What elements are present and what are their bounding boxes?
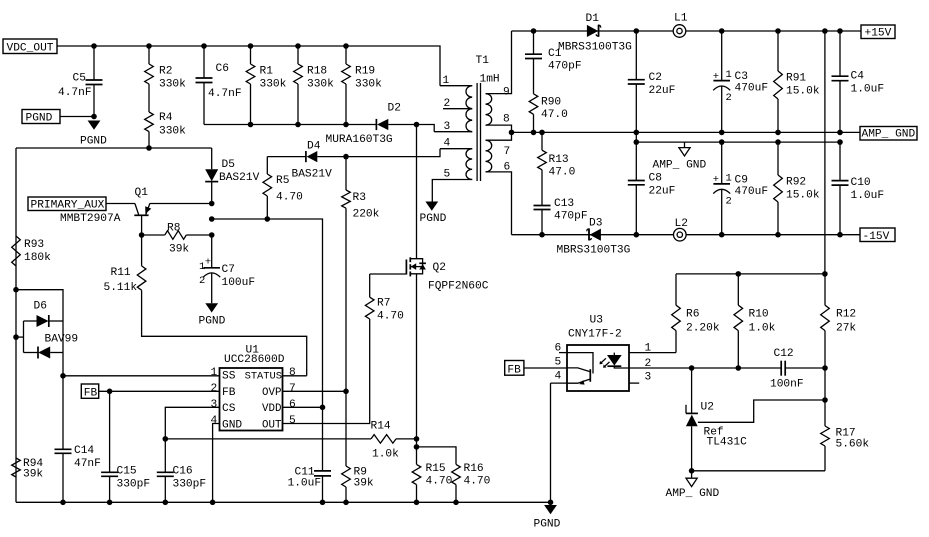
wire Q2 source to R15 <box>416 274 418 465</box>
resistor R10 <box>737 274 739 305</box>
svg-text:1: 1 <box>211 367 218 379</box>
junction ground rail / U1 GND <box>210 500 216 506</box>
junction +rail / R91 <box>775 28 781 34</box>
svg-text:MBRS3100T3G: MBRS3100T3G <box>558 42 632 54</box>
svg-text:15.0k: 15.0k <box>786 86 820 98</box>
svg-text:220k: 220k <box>353 209 380 221</box>
svg-text:2: 2 <box>199 275 205 287</box>
svg-text:4: 4 <box>211 415 218 427</box>
junction ground rail / C11 <box>320 500 326 506</box>
svg-text:D4: D4 <box>307 140 321 152</box>
svg-text:+: + <box>713 174 719 186</box>
svg-text:1: 1 <box>726 69 732 81</box>
svg-text:R6: R6 <box>686 309 699 321</box>
junction centre tap / mid rail <box>509 130 515 136</box>
junction +rail / C2 <box>634 28 640 34</box>
svg-text:R18: R18 <box>307 66 327 78</box>
svg-text:27k: 27k <box>836 323 856 335</box>
junction VDC rail / R18 <box>295 43 301 49</box>
resistor R2 <box>148 46 150 64</box>
resistor R11 <box>141 235 143 266</box>
svg-text:L1: L1 <box>674 13 688 25</box>
svg-text:Q1: Q1 <box>135 187 149 199</box>
wire T1 pins 8-7 centre tap <box>486 125 512 140</box>
svg-text:4.70: 4.70 <box>464 476 491 488</box>
svg-text:C4: C4 <box>851 71 865 83</box>
junction mid rail / C4 <box>837 130 843 136</box>
svg-text:FB: FB <box>222 387 236 399</box>
wire FB to U3 pin5 <box>524 367 567 369</box>
capacitor C8 <box>635 132 637 180</box>
junction -rail / C13 <box>539 232 545 238</box>
svg-text:+15V: +15V <box>865 28 892 40</box>
svg-text:8: 8 <box>289 367 296 379</box>
svg-text:FQPF2N60C: FQPF2N60C <box>428 281 489 293</box>
transformer T1 <box>466 86 472 132</box>
svg-text:SS: SS <box>222 371 236 383</box>
junction ground rail / C14 <box>60 500 66 506</box>
svg-text:PGND: PGND <box>26 113 53 125</box>
net label VDC_OUT <box>3 39 57 54</box>
svg-text:OVP: OVP <box>262 387 281 399</box>
wire T1 pin2 stub <box>443 108 472 110</box>
wire gate <box>370 273 407 275</box>
svg-text:D6: D6 <box>34 301 47 313</box>
junction C5 / PGND <box>91 114 97 120</box>
svg-text:2.20k: 2.20k <box>686 323 720 335</box>
svg-text:C8: C8 <box>649 173 662 185</box>
svg-text:U3: U3 <box>590 315 603 327</box>
junction -rail / C10 <box>837 232 843 238</box>
wire U3 pin4 stub <box>551 382 568 384</box>
junction mid rail / C3 <box>719 130 725 136</box>
junction U2 anode / AMP_GND <box>689 468 695 474</box>
capacitor C2 <box>635 31 637 80</box>
ground PGND main rail <box>544 505 557 514</box>
svg-text:100nF: 100nF <box>770 379 804 391</box>
junction mid rail / C2 <box>634 130 640 136</box>
svg-text:470pF: 470pF <box>554 211 588 223</box>
svg-text:3: 3 <box>645 372 652 384</box>
svg-text:R19: R19 <box>355 66 375 78</box>
junction emitter / D5 column <box>209 201 215 207</box>
resistor R1 <box>250 46 252 64</box>
ground AMP_GND mid symbol <box>684 142 686 148</box>
junction lower rail / C9 <box>719 139 725 145</box>
svg-text:MMBT2907A: MMBT2907A <box>60 213 121 225</box>
svg-text:4.7nF: 4.7nF <box>58 87 92 99</box>
svg-text:BAS21V: BAS21V <box>219 172 260 184</box>
junction D4 wire / R3 <box>343 154 349 160</box>
svg-text:470pF: 470pF <box>548 61 582 73</box>
svg-text:R16: R16 <box>464 463 484 475</box>
svg-text:R14: R14 <box>371 421 391 433</box>
junction VDC rail / C6 <box>201 43 207 49</box>
junction source / R16 branch <box>414 444 420 450</box>
junction VDC rail / R2 <box>146 43 152 49</box>
svg-text:47nF: 47nF <box>74 458 101 470</box>
svg-text:L2: L2 <box>675 218 688 230</box>
optocoupler U3 CNY17F-2 <box>567 345 629 391</box>
resistor R15 <box>412 464 421 484</box>
junction VDD / C11 <box>320 405 326 411</box>
capacitor C4 <box>839 31 841 76</box>
svg-text:1.0uF: 1.0uF <box>288 478 322 490</box>
svg-text:FB: FB <box>84 388 98 400</box>
wire VDD pin6 <box>283 406 323 408</box>
wire T1 pin4 stub <box>440 148 472 150</box>
svg-text:R93: R93 <box>24 239 44 251</box>
wire T1 pin5 stub <box>432 180 472 202</box>
svg-text:39k: 39k <box>169 243 189 255</box>
svg-text:39k: 39k <box>354 478 374 490</box>
svg-text:U2: U2 <box>701 402 714 414</box>
transistor Q2 FQPF2N60C <box>405 260 407 275</box>
junction D6 column / SS wire <box>60 373 66 379</box>
junction -rail / C8 <box>634 232 640 238</box>
svg-text:6: 6 <box>289 399 296 411</box>
junction VDD feed <box>209 216 215 222</box>
wire R4 bottom rail <box>16 147 212 149</box>
junction lower rail / C10 <box>837 139 843 145</box>
svg-text:R8: R8 <box>167 223 180 235</box>
svg-text:2: 2 <box>211 383 218 395</box>
net label -15V <box>860 228 895 242</box>
wire OUT pin5 to R7 <box>283 319 370 424</box>
resistor R17 <box>824 368 826 426</box>
capacitor C11 <box>322 407 324 471</box>
junction R1 bottom <box>248 122 254 128</box>
junction +rail / C4 <box>837 28 843 34</box>
wire D4 anode to T1 pin4 <box>317 149 440 157</box>
svg-text:R1: R1 <box>260 66 274 78</box>
wire U2 anode / R17 bottom <box>692 470 825 472</box>
net label AMP_GND <box>860 127 917 141</box>
svg-text:PRIMARY_AUX: PRIMARY_AUX <box>31 200 105 212</box>
resistor R90 <box>529 94 538 115</box>
svg-text:47.0: 47.0 <box>541 109 568 121</box>
svg-text:5: 5 <box>444 169 451 181</box>
svg-text:470uF: 470uF <box>735 83 769 95</box>
junction FB / C15 <box>107 389 113 395</box>
wire U3 pin1 to R6 <box>629 352 676 354</box>
junction +rail / C1 <box>531 28 537 34</box>
svg-text:C13: C13 <box>554 198 574 210</box>
junction mid rail / R91 <box>775 130 781 136</box>
svg-text:R15: R15 <box>426 463 446 475</box>
svg-text:15.0k: 15.0k <box>786 190 820 202</box>
junction R8 / C7 <box>209 232 215 238</box>
capacitor C10 <box>839 142 841 181</box>
net label FB (right) <box>505 361 524 376</box>
wire R11 to STATUS pin8 <box>142 290 307 376</box>
wire FB pin2 <box>99 390 220 392</box>
diode U2 TL431C <box>691 368 693 413</box>
wire OVP pin7 <box>283 390 347 392</box>
diode D2 <box>377 119 388 130</box>
wire U3 pin2 to C12 <box>629 367 781 369</box>
junction ground rail / R9 <box>343 500 349 506</box>
svg-text:MURA160T3G: MURA160T3G <box>326 134 393 146</box>
junction ground rail / R16 <box>453 500 459 506</box>
svg-text:2: 2 <box>726 92 732 104</box>
inductor L1 <box>673 25 686 38</box>
resistor R16 <box>417 447 457 465</box>
svg-text:5.11k: 5.11k <box>104 282 138 294</box>
junction lower rail / C8 <box>634 139 640 145</box>
wire U3 pin3 stub <box>629 382 639 384</box>
svg-text:T1: T1 <box>476 55 490 67</box>
resistor R6 <box>675 274 677 305</box>
svg-text:TL431C: TL431C <box>707 437 748 449</box>
svg-text:Q2: Q2 <box>433 262 446 274</box>
svg-text:47.0: 47.0 <box>549 167 576 179</box>
svg-text:4.7nF: 4.7nF <box>208 88 242 100</box>
wire -15V rail <box>512 234 861 236</box>
capacitor C13 <box>534 205 551 207</box>
wire aux supply to VDD <box>212 219 323 407</box>
svg-text:330k: 330k <box>159 79 186 91</box>
svg-text:PGND: PGND <box>80 136 107 148</box>
svg-text:4.70: 4.70 <box>276 192 303 204</box>
junction OVP / R3-R9 <box>343 389 349 395</box>
wire T1 pin1 stub <box>440 85 472 87</box>
svg-text:2: 2 <box>726 195 732 207</box>
wire snubber to D2 <box>204 124 377 126</box>
svg-text:1.0uF: 1.0uF <box>851 190 885 202</box>
junction ground rail / C16 <box>163 500 169 506</box>
svg-text:1: 1 <box>443 75 450 87</box>
ground PGND under C5 <box>88 121 101 130</box>
svg-text:3: 3 <box>211 399 218 411</box>
svg-text:470uF: 470uF <box>735 186 769 198</box>
junction ground rail / C15 <box>107 500 113 506</box>
wire T1 pin6 to -rail <box>486 172 512 235</box>
svg-text:R91: R91 <box>786 73 806 85</box>
op-amp U1 UCC28600D <box>220 368 283 431</box>
net label FB (left) <box>81 384 98 398</box>
svg-text:AMP_ GND: AMP_ GND <box>862 129 916 141</box>
wire U2 ref <box>698 400 825 422</box>
svg-text:PGND: PGND <box>199 316 226 328</box>
svg-text:MBRS3100T3G: MBRS3100T3G <box>557 245 631 257</box>
svg-text:PGND: PGND <box>534 519 561 531</box>
svg-text:C14: C14 <box>74 445 94 457</box>
ground AMP_GND bottom symbol <box>691 471 693 478</box>
resistor R94 <box>12 458 21 477</box>
net label PRIMARY_AUX <box>28 197 106 211</box>
capacitor C9 (electrolytic) <box>721 142 723 184</box>
svg-text:7: 7 <box>504 146 511 158</box>
junction R19 bottom <box>343 122 349 128</box>
svg-text:8: 8 <box>503 114 510 126</box>
capacitor C7 (electrolytic) <box>211 235 213 267</box>
capacitor C6 <box>203 46 205 78</box>
ground AMP_GND arrow (mid) <box>679 148 690 156</box>
svg-text:VDC_OUT: VDC_OUT <box>7 43 54 55</box>
wire T1 pin9 to +rail <box>486 31 512 94</box>
svg-text:PGND: PGND <box>420 213 447 225</box>
svg-text:9: 9 <box>503 87 510 99</box>
svg-text:C3: C3 <box>735 71 748 83</box>
junction source / R14 <box>414 436 420 442</box>
net label +15V <box>861 25 895 39</box>
svg-text:R4: R4 <box>159 112 173 124</box>
wire VDC_OUT rail <box>57 46 440 86</box>
resistor R14 <box>165 438 371 440</box>
resistor R4 <box>145 112 154 132</box>
junction left rail / D6 mid <box>13 334 19 340</box>
svg-text:3: 3 <box>444 121 451 133</box>
svg-text:7: 7 <box>289 383 296 395</box>
junction Q1 collector / R8 <box>139 232 145 238</box>
wire SS pin1 <box>63 375 220 377</box>
svg-text:1mH: 1mH <box>480 74 500 86</box>
resistor R19 <box>345 46 347 64</box>
svg-text:R7: R7 <box>377 298 390 310</box>
wire CS pin3 <box>165 407 219 439</box>
junction lower rail / R92 <box>775 139 781 145</box>
junction ground rail / R15 <box>414 500 420 506</box>
junction rail / R10 <box>736 271 742 277</box>
svg-text:330pF: 330pF <box>117 479 151 491</box>
svg-text:C9: C9 <box>735 174 748 186</box>
svg-text:UCC28600D: UCC28600D <box>224 354 285 366</box>
svg-text:330k: 330k <box>307 79 334 91</box>
svg-text:R3: R3 <box>353 192 366 204</box>
transistor Q1 MMBT2907A <box>135 204 139 215</box>
capacitor C14 <box>55 448 72 450</box>
svg-text:-15V: -15V <box>863 231 890 243</box>
svg-text:GND: GND <box>222 419 242 431</box>
svg-text:BAV99: BAV99 <box>45 334 79 346</box>
capacitor C15 <box>109 391 111 472</box>
svg-text:22uF: 22uF <box>649 186 676 198</box>
junction +rail / feed <box>822 28 828 34</box>
junction mid rail / R90 <box>531 130 537 136</box>
resistor R12 <box>824 274 826 305</box>
svg-text:4.70: 4.70 <box>426 476 453 488</box>
svg-text:AMP_ GND: AMP_ GND <box>666 488 720 500</box>
svg-text:R90: R90 <box>541 97 561 109</box>
svg-text:330pF: 330pF <box>173 479 207 491</box>
diode D6 BAV99 (dual) <box>16 290 63 450</box>
wire GND pin4 <box>213 424 220 503</box>
resistor R7 <box>365 297 374 319</box>
resistor R3 <box>345 157 347 190</box>
svg-text:C6: C6 <box>216 63 229 75</box>
wire left rail <box>15 148 17 502</box>
svg-text:R5: R5 <box>276 175 289 187</box>
resistor R8 <box>142 234 165 236</box>
svg-text:R11: R11 <box>111 267 131 279</box>
capacitor C5 <box>93 46 95 80</box>
wire divider top rail <box>676 273 825 275</box>
resistor R91 <box>777 31 779 71</box>
capacitor C16 <box>164 439 166 472</box>
svg-text:1.0k: 1.0k <box>749 323 776 335</box>
svg-text:FB: FB <box>507 364 521 376</box>
svg-text:1.0uF: 1.0uF <box>851 84 885 96</box>
svg-text:CNY17F-2: CNY17F-2 <box>568 329 622 341</box>
svg-text:4: 4 <box>555 371 562 383</box>
junction R18 bottom <box>295 122 301 128</box>
wire Q1 emitter to D5 node <box>150 203 212 205</box>
svg-text:330k: 330k <box>355 79 382 91</box>
junction +rail / C3 <box>719 28 725 34</box>
svg-text:1: 1 <box>726 172 732 184</box>
junction feed / R12 rail <box>822 271 828 277</box>
svg-text:R13: R13 <box>549 154 569 166</box>
svg-text:5.60k: 5.60k <box>836 439 870 451</box>
svg-text:1.0k: 1.0k <box>372 449 399 461</box>
junction VDC rail / R19 <box>343 43 349 49</box>
svg-text:C2: C2 <box>649 72 662 84</box>
svg-text:R12: R12 <box>836 309 856 321</box>
svg-text:BAS21V: BAS21V <box>292 168 333 180</box>
resistor R13 <box>541 132 543 150</box>
junction mid rail / R13 <box>539 130 545 136</box>
svg-text:+: + <box>713 71 719 83</box>
junction CS / C16 / R14 <box>163 436 169 442</box>
svg-text:D2: D2 <box>388 103 401 115</box>
diode D5 <box>211 148 213 169</box>
svg-text:C10: C10 <box>851 177 871 189</box>
ground PGND under C7 <box>205 303 218 312</box>
svg-text:D3: D3 <box>589 218 602 230</box>
svg-text:R2: R2 <box>159 66 172 78</box>
svg-text:4: 4 <box>444 138 451 150</box>
wire STATUS pin8 stub <box>283 375 307 377</box>
svg-text:22uF: 22uF <box>649 85 676 97</box>
wire Q2 drain <box>416 125 418 259</box>
junction VDC rail / R1 <box>248 43 254 49</box>
resistor R5 <box>266 196 268 219</box>
inductor L2 <box>674 228 687 241</box>
svg-text:STATUS: STATUS <box>245 371 282 383</box>
svg-text:AMP_ GND: AMP_ GND <box>653 160 707 172</box>
junction -rail / R92 <box>775 232 781 238</box>
capacitor C12 <box>780 361 782 376</box>
svg-text:C12: C12 <box>774 348 794 360</box>
diode D1 MBRS3100T3G <box>587 25 598 37</box>
svg-text:+: + <box>205 256 211 268</box>
svg-text:2: 2 <box>444 98 451 110</box>
capacitor C1 <box>533 31 535 54</box>
ground AMP_GND arrow (bottom) <box>686 478 697 486</box>
svg-text:R92: R92 <box>786 177 806 189</box>
wire AMP_GND mid rail <box>512 131 861 133</box>
junction C12 / R12-R17 <box>822 365 828 371</box>
capacitor C3 (electrolytic) <box>721 31 723 80</box>
wire U3 pin4 to ground <box>550 383 552 502</box>
wire AMP_GND lower rail <box>636 141 840 143</box>
svg-text:5: 5 <box>289 415 296 427</box>
wire PRIMARY_AUX to Q1 base <box>106 203 135 205</box>
svg-text:OUT: OUT <box>262 419 282 431</box>
svg-text:180k: 180k <box>24 252 51 264</box>
junction pin2 wire / U2 <box>689 365 695 371</box>
junction D2 anode / Q2 drain <box>414 122 420 128</box>
diode D3 MBRS3100T3G <box>590 229 601 241</box>
svg-text:330k: 330k <box>260 79 287 91</box>
junction ref / R12-R17 <box>822 397 828 403</box>
junction VDC rail / C5 <box>91 43 97 49</box>
ground PGND at T1 pin5 <box>425 202 438 211</box>
svg-text:100uF: 100uF <box>222 277 256 289</box>
junction -rail / C9 <box>719 232 725 238</box>
junction ground rail / U3 pin4 <box>548 500 554 506</box>
